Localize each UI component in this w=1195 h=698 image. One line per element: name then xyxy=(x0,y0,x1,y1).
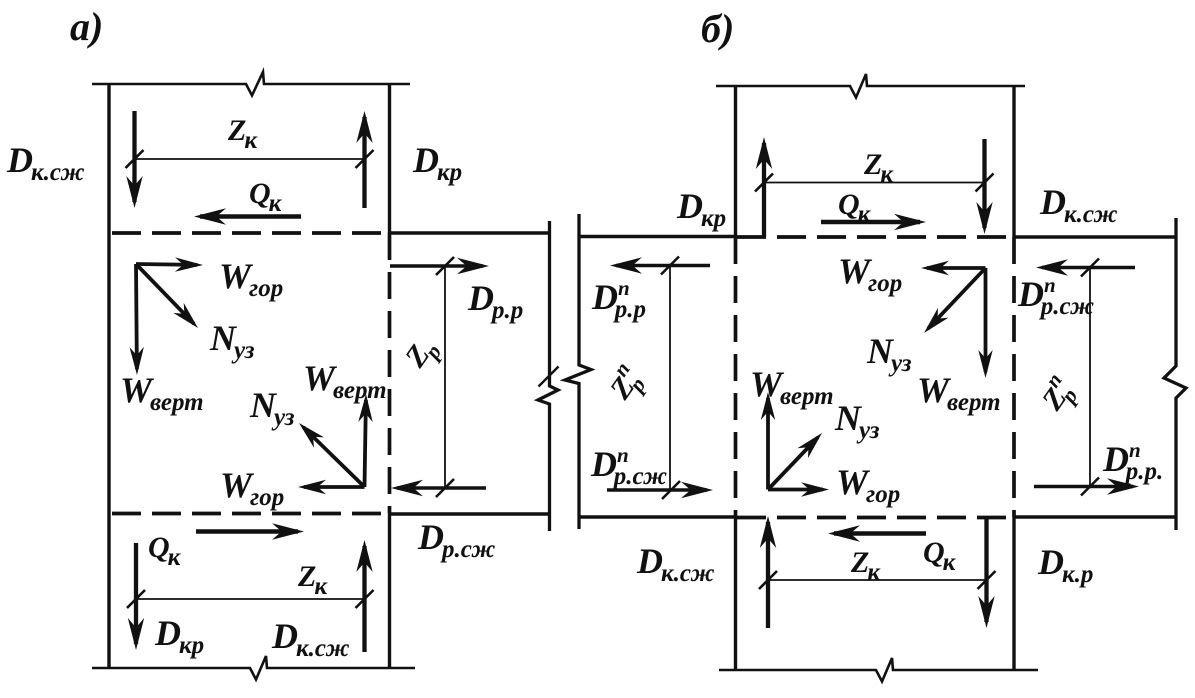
beam top edge (a) xyxy=(390,231,551,234)
joint bottom boundary dashed (a) xyxy=(112,512,389,516)
dimension line Z^п_р (b right beam) xyxy=(1089,268,1091,487)
force W_гор arrow left (a joint bottom) xyxy=(298,480,365,494)
tick on D^п_р.сж arrow (b right) xyxy=(1081,259,1099,277)
shear force Q_к arrow right (b top) xyxy=(821,214,926,230)
shear force Q_к arrow right (a bottom) xyxy=(196,523,304,539)
dimension line Z_р (a beam) xyxy=(444,266,446,488)
force D^п_р.сж arrow left (b right beam top) xyxy=(1036,259,1135,275)
joint top boundary dashed (b) xyxy=(737,235,1013,239)
tick left of Z_к bottom (a) xyxy=(127,590,145,608)
column bottom edge with break (b) xyxy=(719,658,1038,682)
right beam top edge (b) xyxy=(1014,235,1176,238)
column right edge lower (b) xyxy=(1012,517,1015,671)
shear force Q_к arrow left (b bottom) xyxy=(828,525,926,541)
force D_кр arrow up (b top-left) xyxy=(756,137,772,237)
force D_р.сж arrow left (a beam bottom) xyxy=(391,480,486,496)
column right edge upper (a) xyxy=(388,83,391,233)
force N_уз arrow diagonal down-left (b joint top) xyxy=(924,268,986,333)
column left edge (a) xyxy=(107,83,110,669)
beam broken end upper part (a) xyxy=(538,221,558,531)
tick on D_р.сж arrow (a) xyxy=(436,479,454,497)
column top edge with break (a) xyxy=(92,72,410,96)
column right edge upper (b) xyxy=(1012,85,1015,237)
dimension line Z^п_р (b left beam) xyxy=(669,266,671,491)
dimension line Z_к top (b) xyxy=(764,182,985,184)
left beam bottom edge (b) xyxy=(579,515,736,518)
force D_к.сж arrow up (a bottom-right) xyxy=(356,540,372,652)
dimension line Z_к bottom (a) xyxy=(136,598,365,600)
joint top boundary dashed (a) xyxy=(112,231,389,235)
force W_верт arrow down (b joint top) xyxy=(978,268,992,378)
force D^п_р.р arrow right (b right beam bottom) xyxy=(1034,478,1139,494)
tick right of Z_к bottom (b) xyxy=(978,571,996,589)
tick left of Z_к bottom (b) xyxy=(759,571,777,589)
column right edge lower (a) xyxy=(388,513,391,669)
tick on D^п_р.сж arrow (b left) xyxy=(662,481,680,499)
force D_р.р arrow right (a beam top) xyxy=(390,258,489,274)
force W_гор arrow right (b joint bottom) xyxy=(768,482,829,496)
force W_гор arrow left (b joint top) xyxy=(921,261,986,275)
left beam top edge (b) xyxy=(579,235,736,238)
tick right of Z_к top (b) xyxy=(976,174,994,192)
column left edge in joint, dashed (b) xyxy=(734,237,738,517)
tick left of Z_к top (b) xyxy=(755,174,773,192)
beam bottom edge (a) xyxy=(390,512,551,515)
dimension line Z_к bottom (b) xyxy=(768,579,987,581)
tick left of Z_к top (a) xyxy=(126,150,144,168)
tick on D_р.р arrow (a) xyxy=(436,257,454,275)
tick right of Z_к top (a) xyxy=(356,150,374,168)
force W_верт arrow up (b joint bottom) xyxy=(761,392,775,490)
svg-text:а): а) xyxy=(70,4,103,49)
force D_кр arrow down (a bottom-left) xyxy=(128,543,144,650)
column bottom edge with break (a) xyxy=(92,656,415,680)
joint bottom boundary dashed (b) xyxy=(737,516,1013,520)
dimension line Z_к top (a) xyxy=(135,158,365,160)
force D^п_р.р arrow left (b left beam top) xyxy=(610,257,710,273)
force N_уз arrow diagonal (a joint top) xyxy=(136,264,198,328)
force N_уз arrow diagonal up-left (a joint bottom) xyxy=(299,423,365,487)
force D_к.р arrow down (b bottom-right) xyxy=(978,518,994,628)
force D_к.сж arrow up (b bottom-left) xyxy=(760,516,776,628)
force W_верт arrow up (a joint bottom) xyxy=(358,394,372,487)
tick on D^п_р.р arrow (b) xyxy=(661,257,679,275)
column left edge upper (b) xyxy=(734,85,737,237)
force N_уз arrow diagonal up-right (b joint bottom) xyxy=(768,433,822,490)
force D^п_р.сж arrow right (b left beam bottom) xyxy=(607,482,713,498)
force D_кр arrow up (a top-right) xyxy=(356,111,372,208)
svg-text:б): б) xyxy=(701,6,734,51)
tick right of Z_к bottom (a) xyxy=(356,590,374,608)
beam end break slash (a) xyxy=(539,367,559,387)
column left edge lower (b) xyxy=(734,517,737,671)
column top edge with break (b) xyxy=(716,74,1025,98)
tick on D^п_р.р arrow (b right) xyxy=(1081,478,1099,496)
force W_верт arrow down (a joint top) xyxy=(130,264,144,375)
force D_к.сж arrow down (b top-right) xyxy=(976,139,992,234)
right beam bottom edge (b) xyxy=(1014,515,1176,518)
force D_к.сж arrow down (a top-left) xyxy=(126,111,142,208)
right beam broken end (b) xyxy=(1164,218,1186,530)
column right edge in joint, dashed (b) xyxy=(1012,237,1016,517)
shear force Q_к arrow left (a top) xyxy=(194,208,301,224)
column right edge in joint, dashed (a) xyxy=(388,233,392,513)
force W_гор arrow right (a joint top) xyxy=(136,257,203,271)
b left beam broken end xyxy=(565,214,591,529)
